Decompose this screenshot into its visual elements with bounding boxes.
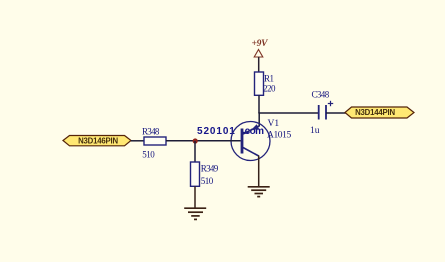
transistor V1 circle xyxy=(231,122,270,161)
svg-text:1u: 1u xyxy=(310,126,320,136)
wire junction down to R349 xyxy=(194,141,196,162)
wire cap to flag xyxy=(326,112,346,114)
capacitor C348 plate right xyxy=(325,105,327,120)
wire node down to emitter xyxy=(258,113,260,127)
resistor R349 xyxy=(191,162,200,186)
power +9V triangle xyxy=(254,50,263,58)
svg-text:520101: 520101 xyxy=(197,126,236,137)
net flag N3D146PIN xyxy=(63,136,131,146)
svg-text:R349: R349 xyxy=(201,163,219,173)
wire flag to R348 xyxy=(131,140,144,142)
net flag N3D144PIN xyxy=(345,107,414,118)
resistor R1 xyxy=(255,72,264,95)
wire R349 to ground xyxy=(194,186,196,208)
svg-text:510: 510 xyxy=(142,150,155,160)
resistor R348 xyxy=(144,137,166,145)
svg-text:R348: R348 xyxy=(142,126,160,136)
svg-text:C348: C348 xyxy=(312,90,330,100)
ground under transistor xyxy=(248,187,270,197)
svg-text:N3D146PIN: N3D146PIN xyxy=(78,137,118,146)
capacitor C348 plate left xyxy=(318,105,320,120)
svg-text:510: 510 xyxy=(201,176,214,186)
svg-text:+9V: +9V xyxy=(252,39,269,49)
transistor emitter arrow xyxy=(251,124,259,130)
svg-text:N3D144PIN: N3D144PIN xyxy=(355,108,395,117)
wire power stem xyxy=(258,57,260,72)
transistor emitter line xyxy=(243,126,259,134)
svg-text:A1015: A1015 xyxy=(267,130,292,140)
ground under R349 xyxy=(184,208,206,219)
wire node to capacitor xyxy=(258,112,319,114)
wire collector to ground xyxy=(258,156,260,188)
svg-text:.com: .com xyxy=(243,126,265,137)
transistor base bar xyxy=(241,129,244,154)
svg-text:220: 220 xyxy=(263,84,276,94)
svg-text:V1: V1 xyxy=(268,119,280,129)
capacitor plus sign xyxy=(328,101,333,106)
wire R1 bottom to node xyxy=(258,95,260,113)
transistor collector line xyxy=(243,148,259,157)
watermark glyph fragment xyxy=(241,132,248,134)
wire R348 to base xyxy=(166,140,241,142)
junction dot xyxy=(193,138,198,143)
svg-text:R1: R1 xyxy=(264,74,274,84)
